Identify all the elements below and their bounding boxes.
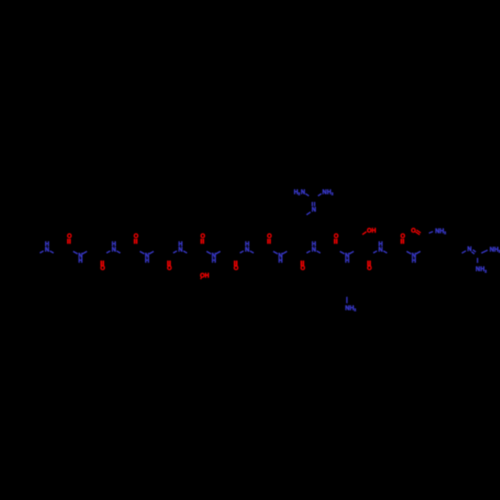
bond N19-C18 (half) [240, 251, 244, 253]
bond CH2-NH2 half (Lys) [346, 297, 348, 303]
svg-text:H: H [372, 227, 377, 234]
bond C-NH2(right) half [318, 194, 321, 196]
bond N1-C2 (half) [50, 251, 54, 253]
svg-text:2: 2 [331, 192, 333, 196]
svg-text:2: 2 [444, 231, 446, 235]
svg-text:H: H [212, 257, 217, 264]
C3=O3 double bond [67, 239, 69, 244]
svg-text:H: H [345, 257, 350, 264]
C=O double bond (C-term amide) [417, 230, 421, 233]
svg-text:N: N [178, 246, 183, 253]
bond C-NH2 half (top right) [481, 250, 487, 253]
C30=O30 double bond [367, 261, 369, 266]
svg-text:H: H [78, 257, 83, 264]
bond N22-C21 (half) [273, 251, 278, 254]
C21=O21 double bond [267, 239, 269, 244]
bond N31-C30 (half) [373, 251, 377, 253]
bond C-NH2 half (C-term amide) [429, 232, 433, 234]
bond N25-C24 (half) [307, 251, 311, 253]
bond N16-C17 (half) [216, 251, 221, 254]
svg-text:H: H [205, 272, 210, 279]
C12=O12 double bond [167, 261, 169, 266]
bond N4-C5 (half) [82, 251, 87, 254]
bond N25-C26 (half) [317, 251, 321, 253]
svg-text:N: N [312, 246, 317, 253]
bond N1-C0 (half) [40, 251, 44, 253]
svg-text:N: N [378, 246, 383, 253]
C24=O24 double bond [300, 261, 302, 266]
bond N34-C35 (half) [416, 251, 421, 254]
bond N10-C11 (half) [149, 251, 154, 254]
C6=O6 double bond [100, 261, 102, 266]
svg-text:N: N [312, 207, 317, 214]
C=N double bond (guanidine) [311, 202, 313, 206]
svg-text:O: O [167, 265, 172, 272]
svg-text:O: O [367, 265, 372, 272]
svg-text:O: O [100, 265, 105, 272]
svg-text:H: H [145, 257, 150, 264]
bond N19-C20 (half) [250, 251, 254, 253]
bond C-NH2 (bottom, vertical) [477, 258, 479, 263]
svg-text:N: N [245, 246, 250, 253]
svg-text:N: N [112, 246, 117, 253]
svg-text:2: 2 [485, 269, 487, 273]
bond N7-C6 (half) [106, 251, 110, 253]
C18=O18 double bond [234, 261, 236, 266]
bond N10-C9 (half) [140, 251, 145, 254]
bond O-CH2 half [200, 277, 203, 279]
bond N16-C15 (half) [207, 251, 212, 254]
C9=O9 double bond [134, 239, 136, 244]
bond CH2-N half (right guanidine) [462, 251, 466, 253]
bond N28-C27 (half) [340, 251, 345, 254]
C27=O27 double bond [334, 239, 336, 244]
bond N13-C14 (half) [183, 251, 187, 253]
bond N31-C32 (half) [383, 251, 387, 253]
C33=O33 double bond [400, 239, 402, 244]
svg-text:N: N [45, 246, 50, 253]
bond O-CH half (Thr) [362, 232, 366, 235]
bond N13-C12 (half) [173, 251, 177, 253]
svg-text:2: 2 [354, 308, 356, 312]
svg-text:N: N [301, 189, 306, 196]
svg-text:H: H [412, 257, 417, 264]
C15=O15 double bond [200, 239, 202, 244]
bond N34-C33 (half) [407, 251, 412, 254]
N=C double bond (right guanidine) [472, 252, 475, 254]
svg-text:H: H [278, 257, 283, 264]
bond N28-C29 (half) [349, 251, 354, 254]
bond C-NH2(left) half [306, 194, 309, 196]
bond N7-C8 (half) [117, 251, 121, 253]
svg-text:O: O [411, 227, 416, 234]
bond N22-C23 (half) [283, 251, 288, 254]
bond N-CH2 half [307, 212, 311, 215]
svg-text:O: O [300, 265, 305, 272]
svg-text:O: O [234, 265, 239, 272]
bond N4-C3 (half) [73, 251, 78, 254]
